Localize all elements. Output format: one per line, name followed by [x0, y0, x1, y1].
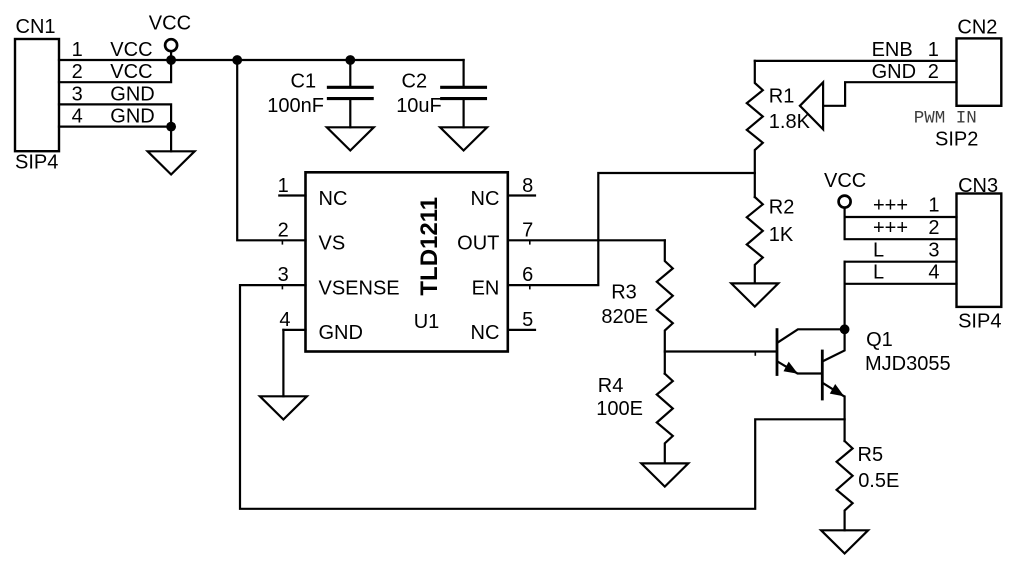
- ground under IC pin4: [260, 396, 307, 419]
- connector CN2 box: [957, 38, 1002, 105]
- svg-text:VCC: VCC: [110, 61, 152, 83]
- wire CN3 pin2: [845, 217, 957, 239]
- wire VCC rail: [171, 59, 464, 61]
- svg-text:L: L: [873, 262, 884, 284]
- svg-text:PWM IN: PWM IN: [914, 109, 977, 129]
- svg-text:4: 4: [928, 262, 939, 284]
- node VS drop: [232, 55, 242, 65]
- labels CN1: [15, 13, 442, 174]
- svg-text:GND: GND: [110, 105, 154, 127]
- capacitor C1 lead bottom: [349, 100, 351, 128]
- capacitor C1 plates: [328, 86, 372, 89]
- svg-text:2: 2: [278, 220, 289, 242]
- svg-text:SIP4: SIP4: [15, 151, 58, 173]
- svg-text:+++: +++: [873, 195, 908, 217]
- node Q1 collector: [840, 324, 850, 334]
- svg-text:R4: R4: [598, 375, 624, 397]
- Q1 collector A: [778, 329, 845, 342]
- capacitor C1 lead top: [349, 60, 351, 87]
- svg-text:CN2: CN2: [957, 16, 997, 38]
- op-amp U1 IC box: [306, 172, 508, 351]
- svg-text:GND: GND: [110, 83, 154, 105]
- wire IC pin5 stub: [508, 329, 535, 331]
- ground under R5: [821, 530, 868, 553]
- power VCC terminal circle (left): [165, 39, 177, 51]
- node GND at CN1 pin4: [166, 122, 176, 132]
- pin tick U1 pin6: [529, 285, 531, 289]
- wire CN1 pin2: [59, 60, 171, 82]
- wire IC pin8 stub: [508, 194, 535, 196]
- svg-text:SIP4: SIP4: [958, 311, 1001, 333]
- resistor R2: [747, 197, 763, 283]
- svg-text:NC: NC: [471, 188, 500, 210]
- Q1 emitter B: [823, 383, 844, 441]
- wire VCC stub CN3: [843, 208, 845, 217]
- svg-text:Q1: Q1: [866, 329, 893, 351]
- svg-text:6: 6: [522, 264, 533, 286]
- svg-text:C2: C2: [402, 70, 428, 92]
- pin tick U1 pin2: [281, 240, 283, 244]
- ground under R4: [641, 463, 688, 486]
- ground under R2: [731, 283, 778, 306]
- wire pin4 to ground: [170, 127, 172, 152]
- wire IC pin4 stub: [283, 329, 305, 331]
- svg-text:OUT: OUT: [457, 233, 499, 255]
- connector CN3 box: [957, 194, 1002, 307]
- svg-text:VCC: VCC: [110, 39, 152, 61]
- power VCC terminal circle (right): [839, 196, 851, 208]
- svg-text:2: 2: [928, 61, 939, 83]
- node C1 top: [345, 55, 355, 65]
- Q1 emitter A: [778, 362, 822, 374]
- Q1 emitter A arrowhead: [784, 362, 798, 374]
- svg-text:NC: NC: [471, 322, 500, 344]
- pin tick U1 pin3: [281, 285, 283, 289]
- wire IC pin1 stub: [279, 194, 305, 196]
- ground sideways at CN2: [800, 82, 823, 129]
- svg-text:5: 5: [522, 309, 533, 331]
- svg-text:VSENSE: VSENSE: [319, 277, 400, 299]
- ground under CN1: [148, 151, 195, 174]
- svg-text:8: 8: [522, 175, 533, 197]
- wire OUT pin7: [508, 239, 665, 241]
- wire CN3 pins to Q1 collector: [843, 262, 845, 330]
- svg-text:1: 1: [928, 195, 939, 217]
- svg-text:7: 7: [522, 220, 533, 242]
- wire VCC stub: [170, 51, 172, 60]
- capacitor C2 lead bottom: [463, 100, 465, 128]
- svg-text:MJD3055: MJD3055: [865, 353, 951, 375]
- svg-text:100nF: 100nF: [267, 95, 324, 117]
- svg-text:2: 2: [72, 61, 83, 83]
- svg-text:R3: R3: [611, 281, 637, 303]
- node VCC at CN1 pin1: [166, 55, 176, 65]
- svg-text:1.8K: 1.8K: [769, 111, 811, 133]
- capacitor C2 plates: [442, 86, 486, 89]
- svg-text:VCC: VCC: [149, 13, 191, 35]
- svg-text:SIP2: SIP2: [935, 128, 978, 150]
- svg-text:0.5E: 0.5E: [858, 470, 899, 492]
- svg-text:3: 3: [928, 239, 939, 261]
- svg-text:GND: GND: [872, 61, 916, 83]
- svg-text:3: 3: [278, 264, 289, 286]
- wire CN3 pin1: [845, 216, 957, 218]
- labels right side: [596, 16, 1001, 492]
- svg-text:4: 4: [72, 105, 83, 127]
- connector CN1 box: [15, 39, 59, 151]
- wire CN2 pin2 GND: [823, 82, 956, 106]
- resistor R4: [657, 374, 673, 464]
- svg-text:+++: +++: [873, 217, 908, 239]
- svg-text:TLD1211: TLD1211: [416, 197, 443, 296]
- svg-text:VCC: VCC: [824, 170, 866, 192]
- wire EN pin6: [508, 173, 755, 285]
- svg-text:R2: R2: [769, 197, 795, 219]
- svg-text:NC: NC: [319, 188, 348, 210]
- wire CN3 pin3: [845, 261, 957, 263]
- svg-text:CN3: CN3: [958, 175, 998, 197]
- ground under C1: [327, 127, 374, 150]
- svg-text:CN1: CN1: [16, 16, 56, 38]
- svg-text:4: 4: [279, 309, 290, 331]
- svg-text:R1: R1: [769, 85, 795, 107]
- pin tick Q1 base: [754, 352, 756, 356]
- svg-text:ENB: ENB: [872, 39, 913, 61]
- svg-text:1: 1: [278, 175, 289, 197]
- wire CN3 pin4: [845, 283, 957, 285]
- capacitor C2 lead top: [463, 60, 465, 87]
- wire Q1 base: [665, 350, 776, 352]
- svg-text:U1: U1: [414, 311, 440, 333]
- svg-text:1: 1: [72, 39, 83, 61]
- resistor R5: [837, 441, 853, 530]
- wire IC pin4 to ground: [282, 330, 284, 396]
- svg-text:1: 1: [928, 39, 939, 61]
- pin tick U1 pin7: [529, 240, 531, 244]
- Q1 collector B: [823, 329, 844, 361]
- svg-text:R5: R5: [858, 444, 884, 466]
- wire ENB: [755, 60, 957, 62]
- svg-text:VS: VS: [319, 233, 346, 255]
- ground under C2: [440, 127, 487, 150]
- Q1 base bar B: [821, 351, 824, 399]
- labels IC U1: [278, 175, 534, 344]
- svg-text:C1: C1: [291, 70, 317, 92]
- svg-text:10uF: 10uF: [396, 95, 442, 117]
- resistor R3: [657, 240, 673, 373]
- svg-text:3: 3: [72, 83, 83, 105]
- wire VS vertical drop: [237, 60, 305, 240]
- svg-text:2: 2: [928, 217, 939, 239]
- Q1 emitter B arrowhead: [830, 384, 844, 396]
- svg-text:EN: EN: [472, 277, 500, 299]
- svg-text:GND: GND: [319, 322, 363, 344]
- wire CN1 pin4: [59, 125, 171, 127]
- svg-text:L: L: [873, 239, 884, 261]
- resistor R1: [747, 61, 763, 197]
- Q1 base bar A: [776, 330, 779, 375]
- wire CN1 pin3: [59, 104, 171, 126]
- svg-text:100E: 100E: [596, 398, 643, 420]
- svg-text:1K: 1K: [769, 224, 794, 246]
- transistor Q1: [777, 329, 845, 441]
- wire CN1 pin1 to VCC rail: [59, 59, 171, 61]
- svg-text:820E: 820E: [601, 306, 648, 328]
- wire VSENSE pin3 long loop: [240, 285, 845, 509]
